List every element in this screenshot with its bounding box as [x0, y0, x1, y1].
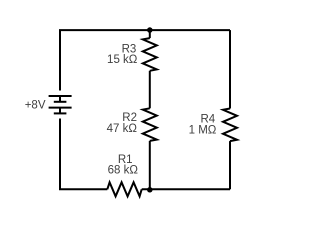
svg-text:1 MΩ: 1 MΩ [189, 125, 217, 137]
resistor R4 (vertical, right) [223, 109, 237, 142]
wire top: left corner to right corner [60, 30, 230, 90]
junction node top [147, 27, 153, 33]
wire: top rail into R4 [229, 30, 231, 108]
svg-text:47 kΩ: 47 kΩ [107, 123, 138, 135]
wire: R2 to bottom node [149, 141, 151, 189]
svg-text:68 kΩ: 68 kΩ [108, 165, 139, 177]
resistor R3 (vertical, middle top) [143, 38, 157, 71]
wire: R3 to R2 [149, 71, 151, 109]
junction node bottom [147, 187, 153, 193]
svg-text:+8V: +8V [25, 100, 46, 112]
resistor R2 (vertical, middle bottom) [143, 108, 157, 141]
resistor R1 (horizontal, bottom) [107, 182, 141, 196]
battery source +8V (two-cell symbol) [49, 96, 72, 113]
wire left-bottom: battery bottom to bottom-left corner [60, 119, 107, 190]
wire bottom-right: junction to bottom-right corner [142, 188, 230, 190]
svg-text:15 kΩ: 15 kΩ [107, 54, 138, 66]
wire: R4 to bottom rail [229, 141, 231, 189]
svg-text:R4: R4 [200, 113, 215, 125]
wire: top node into R3 [149, 30, 151, 38]
